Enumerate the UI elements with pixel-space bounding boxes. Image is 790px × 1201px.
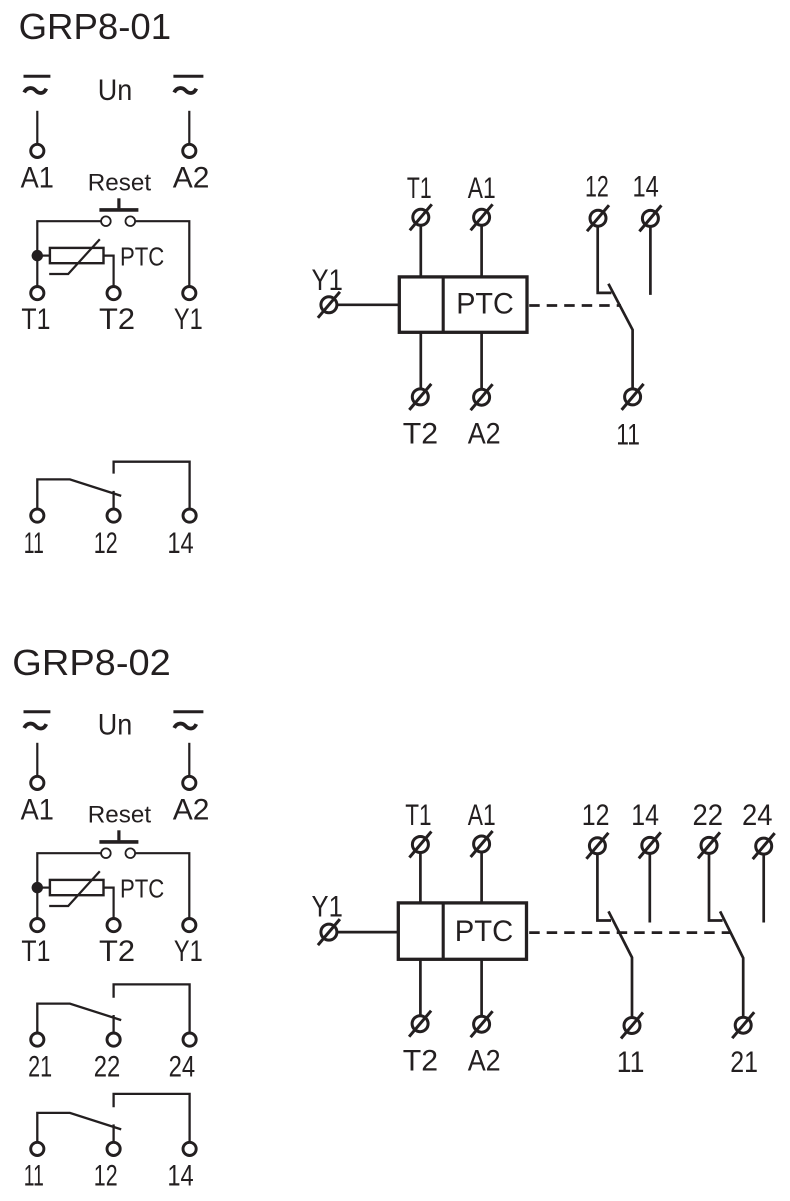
terminal A1	[31, 144, 44, 157]
svg-text:PTC: PTC	[455, 915, 514, 948]
contact arm from 21	[37, 1004, 121, 1033]
svg-text:T2: T2	[403, 1045, 438, 1078]
terminal 22	[107, 1033, 120, 1046]
wire box to A2 2	[480, 959, 483, 1016]
svg-text:Reset: Reset	[88, 802, 152, 829]
wire stub 22	[112, 1015, 114, 1033]
wire box to T2 2	[419, 959, 422, 1016]
terminal T1 slashed	[410, 204, 432, 230]
svg-text:A1: A1	[21, 794, 54, 827]
terminal 12 group2	[107, 1142, 120, 1155]
svg-text:22: 22	[94, 1050, 121, 1083]
terminal A2	[183, 144, 196, 157]
wire reset to Y1 2	[135, 853, 189, 918]
terminal Y1 2	[183, 919, 196, 932]
dashed coupling line 2	[529, 931, 730, 934]
box divider	[442, 277, 445, 332]
wire 22 with foot 2	[709, 854, 723, 921]
wire reset to Y1	[135, 221, 189, 286]
svg-text:Y1: Y1	[174, 935, 203, 968]
svg-text:21: 21	[730, 1046, 758, 1079]
svg-text:12: 12	[585, 170, 609, 203]
thermistor PTC body	[50, 248, 104, 263]
wire T1 to box 2	[419, 853, 422, 903]
wire 12 with foot 2	[597, 854, 611, 920]
wire 24 lead 2	[762, 854, 765, 922]
terminal T2	[107, 287, 120, 300]
svg-text:14: 14	[633, 170, 659, 203]
thermistor strike line	[49, 239, 100, 274]
wire junction to PTC	[37, 255, 50, 257]
svg-text:12: 12	[582, 799, 610, 832]
wire junction to PTC 2	[37, 886, 50, 888]
svg-text:T2: T2	[99, 303, 135, 336]
svg-text:14: 14	[167, 1160, 193, 1193]
wire reset to T1	[37, 221, 101, 286]
svg-text:T2: T2	[99, 935, 135, 968]
svg-text:A1: A1	[468, 172, 496, 205]
wire 12 with foot	[598, 227, 612, 293]
wire reset to T1 2	[37, 853, 101, 918]
wire bridge 12-14 group2	[114, 1094, 190, 1142]
terminal 11 slashed	[622, 384, 644, 410]
svg-text:11: 11	[616, 419, 640, 452]
terminal Y1 slashed	[318, 292, 340, 318]
wire A1 to box	[480, 226, 483, 276]
svg-text:T1: T1	[407, 172, 432, 205]
wire stub 12	[112, 491, 114, 508]
terminal T2 2	[107, 919, 120, 932]
terminal A2 slashed 2	[471, 1011, 493, 1037]
terminal T2 slashed 2	[409, 1011, 431, 1037]
svg-text:Reset: Reset	[88, 170, 152, 197]
terminal 14	[183, 509, 196, 522]
wire T1 to box	[419, 226, 422, 276]
svg-text:12: 12	[94, 527, 118, 560]
svg-text:T2: T2	[403, 418, 438, 451]
terminal T2 slashed	[409, 384, 431, 410]
junction dot	[32, 250, 43, 261]
svg-text:12: 12	[94, 1160, 118, 1193]
switch arm 12-11 2	[609, 911, 633, 1017]
svg-text:PTC: PTC	[456, 288, 514, 321]
wire A1 supply lead 2	[36, 743, 38, 776]
terminal A1 slashed 2	[471, 831, 493, 857]
switch arm 22-21 2	[720, 911, 743, 1017]
svg-text:Un: Un	[98, 708, 133, 741]
wire 14 lead 2	[648, 854, 651, 923]
pushbutton Reset 2	[99, 830, 138, 858]
svg-text:11: 11	[24, 1160, 44, 1193]
svg-text:A2: A2	[468, 418, 501, 451]
terminal A2 2	[183, 776, 196, 789]
wire stub 12 group2	[112, 1124, 114, 1142]
svg-text:11: 11	[617, 1046, 645, 1079]
wire A1 to box 2	[480, 852, 483, 903]
thermistor strike line 2	[49, 871, 100, 906]
wire Y1 to box	[337, 303, 399, 306]
svg-text:A2: A2	[468, 1045, 501, 1078]
wire PTC to T2 2	[104, 888, 114, 919]
terminal A1 2	[31, 776, 44, 789]
svg-text:GRP8-01: GRP8-01	[19, 6, 172, 47]
wire bridge 22-24	[114, 984, 190, 1032]
terminal 14 slashed 2	[639, 832, 661, 858]
terminal 21	[31, 1033, 44, 1046]
wire A2 supply lead	[188, 111, 190, 144]
terminal 11 slashed 2	[621, 1013, 643, 1039]
terminal A2 slashed	[471, 384, 493, 410]
svg-text:21: 21	[28, 1050, 52, 1083]
svg-text:Un: Un	[98, 74, 133, 107]
svg-text:11: 11	[24, 527, 44, 560]
pushbutton Reset	[99, 198, 138, 226]
wire A2 supply lead 2	[188, 743, 190, 776]
svg-text:T1: T1	[21, 303, 50, 336]
device box 2	[398, 903, 526, 959]
wire bridge 12-14	[114, 462, 190, 508]
terminal 12	[107, 509, 120, 522]
svg-text:Y1: Y1	[174, 303, 203, 336]
svg-text:A2: A2	[173, 794, 210, 827]
dashed coupling line	[529, 304, 621, 307]
svg-text:Y1: Y1	[312, 891, 343, 924]
AC supply symbol right (bar + tilde)	[173, 76, 203, 93]
svg-text:T1: T1	[405, 799, 431, 832]
svg-text:A1: A1	[468, 799, 496, 832]
terminal A1 slashed	[471, 204, 493, 230]
switch arm 12-11	[608, 284, 632, 389]
svg-text:A2: A2	[173, 162, 210, 195]
svg-text:14: 14	[167, 527, 193, 560]
AC supply symbol right 2 (bar + tilde)	[173, 712, 203, 729]
terminal 14 group2	[183, 1142, 196, 1155]
terminal T1 2	[31, 919, 44, 932]
junction dot 2	[32, 882, 43, 893]
svg-text:24: 24	[742, 799, 773, 832]
wire PTC to T2	[104, 256, 114, 287]
terminal 11	[31, 509, 44, 522]
terminal 12 slashed	[587, 205, 609, 231]
terminal Y1 slashed 2	[318, 919, 340, 945]
AC supply symbol left (bar + tilde)	[24, 76, 51, 93]
thermistor PTC body 2	[50, 880, 104, 895]
wire A1 supply lead	[36, 111, 38, 144]
terminal 24	[183, 1033, 196, 1046]
wire Y1 to box 2	[337, 931, 398, 934]
terminal 14 slashed	[639, 205, 661, 231]
svg-text:14: 14	[631, 799, 659, 832]
svg-text:24: 24	[169, 1050, 196, 1083]
wire box to T2	[419, 332, 422, 389]
terminal 12 slashed 2	[586, 833, 608, 859]
box divider 2	[442, 903, 445, 959]
terminal 21 slashed 2	[732, 1012, 754, 1038]
wire 14 lead	[649, 227, 652, 295]
AC supply symbol left 2 (bar + tilde)	[24, 712, 51, 729]
device box	[399, 277, 527, 332]
svg-text:GRP8-02: GRP8-02	[12, 642, 171, 683]
terminal 24 slashed 2	[753, 833, 775, 859]
terminal T1 slashed 2	[409, 832, 431, 858]
svg-text:PTC: PTC	[120, 242, 164, 272]
terminal 22 slashed 2	[698, 832, 720, 858]
svg-text:T1: T1	[21, 935, 50, 968]
terminal Y1	[183, 287, 196, 300]
svg-text:22: 22	[693, 799, 724, 832]
wire box to A2	[480, 332, 483, 389]
contact arm from 11	[37, 479, 121, 508]
terminal T1	[31, 287, 44, 300]
svg-text:PTC: PTC	[120, 874, 164, 904]
terminal 11 group2	[31, 1142, 44, 1155]
svg-text:A1: A1	[21, 162, 54, 195]
contact arm from 11 group2	[37, 1113, 121, 1142]
